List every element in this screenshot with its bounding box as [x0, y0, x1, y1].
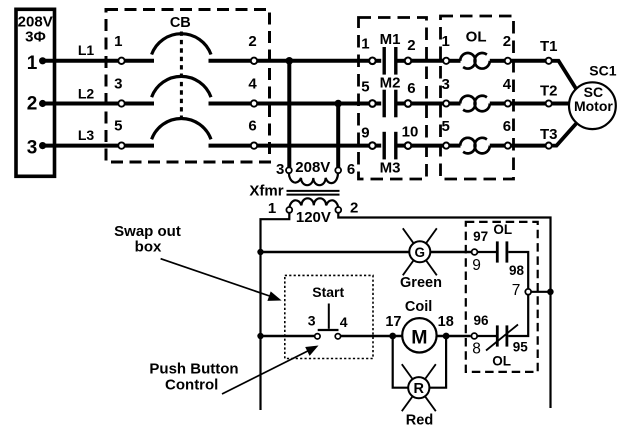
node junction 18	[443, 333, 450, 340]
svg-text:L2: L2	[78, 86, 95, 102]
wire NC contact to node 7	[508, 295, 528, 336]
svg-text:4: 4	[248, 76, 257, 93]
circuit breaker CB trip linkage (dotted)	[180, 32, 183, 120]
svg-text:T1: T1	[540, 38, 558, 55]
contactor contact M1 right terminal 2	[405, 58, 412, 65]
svg-text:95: 95	[513, 340, 529, 355]
pushbutton Start contact 3	[315, 334, 320, 339]
overload OL heater enclosure (dashed)	[441, 16, 514, 179]
node source terminal 3	[39, 142, 46, 149]
svg-text:Xfmr: Xfmr	[249, 183, 283, 200]
contactor contact M2 bars	[383, 90, 386, 118]
overload heater 2 element	[460, 96, 475, 112]
transformer Xfmr secondary terminal 1	[286, 207, 292, 213]
svg-text:2: 2	[27, 94, 38, 115]
wire heater 2 right	[490, 102, 505, 106]
circuit breaker CB pole 1 arc	[152, 34, 211, 55]
transformer Xfmr secondary winding	[289, 198, 338, 207]
wire heater 1 right	[490, 59, 505, 63]
coil M	[402, 318, 436, 352]
overload heater 1 element	[460, 53, 475, 69]
svg-text:17: 17	[385, 314, 401, 330]
wire T2 to motor	[552, 102, 570, 106]
svg-text:T3: T3	[540, 126, 558, 143]
swap out box (dotted)	[285, 275, 373, 358]
circuit breaker CB pole 2 arc	[152, 76, 211, 97]
wire CB pole 1 left	[125, 59, 154, 63]
svg-text:M: M	[411, 326, 427, 348]
svg-text:120V: 120V	[296, 209, 331, 226]
overload heater 3 right terminal 6	[505, 143, 511, 149]
wire secondary terminal 1 to left rail	[261, 213, 290, 411]
svg-text:L1: L1	[78, 42, 95, 58]
svg-text:7: 7	[512, 282, 521, 299]
wire 96 to NC contact	[476, 335, 496, 337]
svg-text:4: 4	[503, 76, 512, 93]
wire heater 1 left	[449, 59, 461, 63]
svg-text:9: 9	[361, 125, 369, 142]
transformer Xfmr core	[287, 190, 340, 192]
node junction right rail	[547, 289, 554, 296]
wire start button to coil terminal 17	[341, 335, 403, 338]
svg-text:6: 6	[407, 80, 415, 97]
svg-text:18: 18	[438, 314, 454, 330]
transformer Xfmr primary terminal 3	[286, 167, 292, 173]
svg-text:Coil: Coil	[405, 299, 432, 315]
wire M2 left	[376, 102, 382, 106]
svg-text:OL: OL	[466, 28, 487, 45]
svg-text:R: R	[414, 381, 425, 397]
svg-text:8: 8	[472, 341, 481, 358]
circuit breaker CB pole 3 right terminal 6	[251, 142, 257, 148]
node junction L1 to transformer	[286, 57, 294, 65]
node junction 17	[389, 333, 396, 340]
svg-text:2: 2	[503, 33, 511, 50]
wire heater 2 left	[449, 102, 461, 106]
wire M2 right	[398, 102, 405, 106]
svg-text:1: 1	[114, 33, 122, 50]
node terminal T3	[546, 143, 552, 149]
svg-text:6: 6	[248, 118, 256, 135]
svg-text:2: 2	[248, 33, 256, 50]
svg-text:Red: Red	[406, 413, 433, 429]
wire CB pole 2 right	[209, 102, 251, 106]
wire secondary terminal 2 to right rail	[338, 213, 550, 409]
wire M3 right	[398, 144, 405, 148]
svg-text:96: 96	[473, 313, 489, 328]
svg-text:1: 1	[268, 200, 276, 217]
wire green lamp to OL terminal 97	[430, 251, 471, 254]
svg-text:SC1: SC1	[589, 63, 616, 79]
svg-text:M3: M3	[380, 159, 401, 176]
svg-text:Motor: Motor	[574, 98, 613, 114]
transformer Xfmr secondary terminal 2	[335, 207, 341, 213]
circuit breaker CB pole 1 left terminal 1	[118, 58, 124, 64]
contactor contact M1 left terminal 1	[369, 58, 376, 65]
svg-text:5: 5	[442, 118, 450, 135]
wire left rail to start button	[261, 335, 315, 338]
contactor contact M3 right terminal 10	[405, 142, 412, 149]
svg-text:CB: CB	[170, 15, 191, 31]
svg-text:2: 2	[407, 37, 415, 54]
wire coil 17 to red lamp	[393, 336, 409, 388]
wire M3 left	[376, 144, 382, 148]
overload heater 2 left terminal 3	[443, 100, 449, 106]
3-phase source box 208V	[16, 9, 55, 176]
wire M1 to OL	[411, 59, 443, 63]
transformer Xfmr primary winding	[289, 173, 338, 185]
node junction left rail branch 1	[257, 249, 263, 255]
overload NO contact 97-98	[496, 241, 499, 262]
contactor contact M2 left terminal 5	[369, 100, 376, 107]
overload OL contacts enclosure (dashed)	[466, 222, 538, 372]
wire heater 1 to T1	[511, 59, 546, 63]
contactor M enclosure (dashed)	[359, 18, 427, 180]
svg-text:6: 6	[347, 161, 355, 178]
svg-text:M1: M1	[380, 31, 401, 48]
wire M1 left	[376, 59, 382, 63]
svg-text:OL: OL	[493, 222, 512, 237]
svg-text:T2: T2	[540, 83, 558, 100]
svg-text:9: 9	[472, 257, 481, 274]
svg-text:Push Button: Push Button	[149, 361, 238, 378]
svg-text:box: box	[135, 239, 162, 256]
contactor contact M3 bars	[383, 132, 386, 160]
overload NC contact 96-95	[496, 325, 499, 346]
svg-text:3: 3	[308, 313, 316, 329]
svg-text:OL: OL	[492, 353, 511, 368]
svg-text:3: 3	[276, 161, 284, 178]
wire heater 3 right	[490, 144, 505, 148]
pushbutton Start contact 4	[335, 334, 340, 339]
wire M3 to OL	[411, 144, 443, 148]
wire L1 drop to transformer terminal 3	[287, 61, 291, 168]
circuit breaker CB pole 2 right terminal 4	[251, 100, 257, 106]
wire node 7 to right rail	[531, 291, 550, 293]
svg-text:3Φ: 3Φ	[25, 29, 46, 46]
node terminal 96	[471, 333, 477, 339]
wire heater 2 to T2	[511, 102, 546, 106]
wire 97 to NO contact	[477, 251, 496, 253]
svg-text:G: G	[415, 245, 426, 260]
wire CB pole 3 right	[209, 144, 251, 148]
svg-text:Green: Green	[400, 275, 442, 291]
node terminal T2	[546, 100, 552, 106]
wire CB pole 3 left	[125, 144, 154, 148]
svg-text:5: 5	[361, 78, 369, 95]
contactor contact M1 bars	[383, 47, 386, 75]
svg-text:3: 3	[442, 76, 450, 93]
overload heater 3 left terminal 5	[443, 143, 449, 149]
overload heater 1 left terminal 1	[443, 58, 449, 64]
wire heater 3 left	[449, 144, 461, 148]
circuit breaker CB enclosure (dashed)	[106, 10, 270, 163]
node junction L2 to transformer	[334, 100, 342, 108]
wire M2 to OL	[411, 102, 443, 106]
svg-text:3: 3	[27, 138, 38, 159]
pilot light G (green)	[426, 228, 437, 243]
wire M1 right	[398, 59, 405, 63]
node terminal 7	[525, 289, 531, 295]
wire T3 to motor	[552, 123, 577, 146]
wire coil 18 to red lamp	[430, 336, 447, 388]
svg-text:L3: L3	[78, 127, 95, 143]
contactor contact M3 left terminal 9	[369, 142, 376, 149]
wire CB pole 2 left	[125, 102, 154, 106]
svg-text:98: 98	[509, 263, 525, 278]
circuit breaker CB pole 1 right terminal 2	[251, 58, 257, 64]
circuit breaker CB pole 3 arc	[152, 118, 211, 139]
wire CB pole 1 right	[209, 59, 251, 63]
wire NO contact to node 7	[508, 252, 528, 289]
svg-text:208V: 208V	[295, 159, 330, 176]
overload heater 1 right terminal 2	[505, 58, 511, 64]
pushbutton Start actuator	[328, 304, 330, 329]
svg-text:3: 3	[114, 76, 122, 93]
arrow swap out box to dotted box	[161, 259, 271, 297]
svg-text:Swap out: Swap out	[114, 223, 181, 240]
circuit breaker CB pole 2 left terminal 3	[118, 100, 124, 106]
node terminal 97	[472, 249, 478, 255]
svg-text:Control: Control	[165, 377, 218, 394]
svg-text:1: 1	[442, 33, 450, 50]
svg-text:5: 5	[114, 118, 122, 135]
motor SC1	[569, 82, 616, 129]
wire source to CB pole 2	[43, 102, 119, 106]
node source terminal 1	[39, 57, 46, 64]
svg-text:97: 97	[473, 229, 488, 244]
wire coil to OL terminal 96	[437, 335, 471, 338]
wire T1 to motor	[552, 61, 577, 90]
svg-text:M2: M2	[380, 75, 401, 92]
svg-text:1: 1	[361, 35, 369, 52]
arrow push button control to start contact	[222, 351, 309, 394]
svg-text:1: 1	[27, 53, 38, 74]
overload heater 3 element	[460, 138, 475, 154]
transformer Xfmr primary terminal 6	[335, 167, 341, 173]
wire CB to M pole 1	[257, 59, 369, 63]
wire CB to M pole 3	[257, 144, 369, 148]
contactor contact M2 right terminal 6	[405, 100, 412, 107]
wire heater 3 to T3	[511, 144, 546, 148]
node junction left rail branch 2	[257, 333, 263, 339]
node source terminal 2	[39, 100, 46, 107]
svg-text:6: 6	[503, 118, 511, 135]
svg-text:10: 10	[402, 124, 419, 141]
wire source to CB pole 3	[43, 144, 119, 148]
svg-text:Start: Start	[312, 284, 344, 300]
wire source to CB pole 1	[43, 59, 119, 63]
svg-text:4: 4	[340, 314, 348, 330]
wire left rail to green lamp	[261, 251, 410, 254]
node terminal T1	[546, 58, 552, 64]
wire CB to M pole 2	[257, 102, 369, 106]
pilot light R (red)	[425, 364, 436, 379]
circuit breaker CB pole 3 left terminal 5	[118, 142, 124, 148]
svg-text:2: 2	[350, 199, 358, 216]
overload heater 2 right terminal 4	[505, 100, 511, 106]
wire L2 drop to transformer terminal 6	[336, 104, 340, 168]
